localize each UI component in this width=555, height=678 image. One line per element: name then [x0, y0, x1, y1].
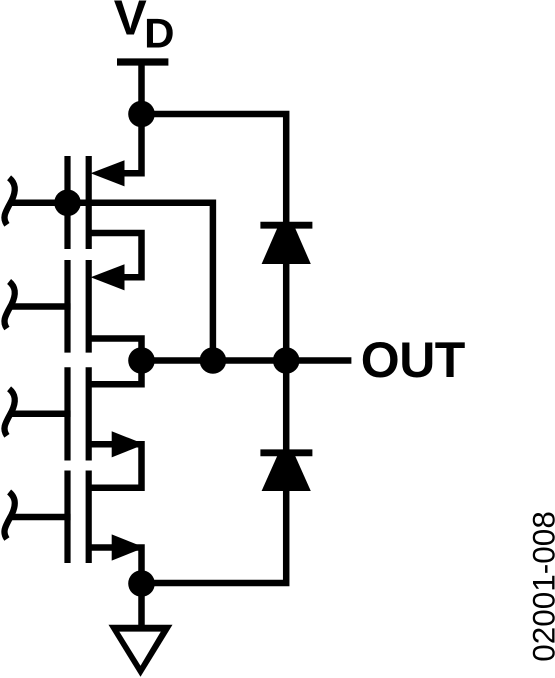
svg-text:D: D	[144, 9, 174, 56]
svg-text:V: V	[114, 0, 147, 46]
svg-text:02001-008: 02001-008	[525, 511, 555, 662]
svg-text:OUT: OUT	[361, 332, 465, 388]
